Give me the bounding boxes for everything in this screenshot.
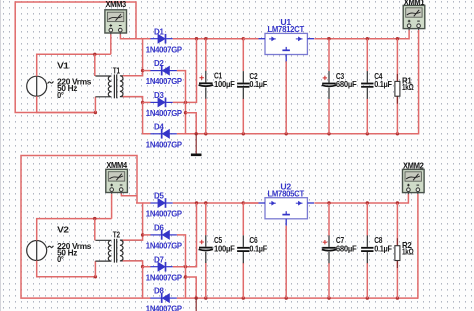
wire to primary top [94,219,96,241]
node on output rail [396,37,399,40]
wire to primary bottom [94,261,96,277]
node on ground rail [242,132,245,135]
wire [205,203,207,235]
wire [366,39,368,71]
node on + rail [242,37,245,40]
wire V2- bottom [37,261,96,277]
node AC2 [141,265,144,268]
AC voltage source V1 220 Vrms 50 Hz [27,61,92,100]
diode D5 1N4007GP [146,191,183,219]
svg-text:680µF: 680µF [336,245,357,254]
node on ground rail [366,132,369,135]
wire to regulator input [243,38,258,40]
node DC- [184,111,187,114]
node on output rail [366,201,369,204]
diode D8 1N4007GP [146,286,183,311]
svg-text:0°: 0° [57,255,64,264]
node on ground rail [366,296,369,299]
wire regulator output rail [314,194,408,203]
wire AC1 rail [136,39,143,71]
node on + rail [242,201,245,204]
wire V1- bottom [37,96,96,112]
wire [366,99,368,134]
svg-text:D7: D7 [154,254,164,264]
multimeter XMM4 [106,161,128,194]
wire [242,99,244,134]
svg-text:1N4007GP: 1N4007GP [146,139,183,149]
AC voltage source V2 220 Vrms 50 Hz [27,226,92,265]
capacitor C5 100uF [196,161,424,311]
capacitor C6 0.1uF [196,161,424,311]
svg-text:T1: T1 [113,66,121,75]
wire [328,203,330,236]
wire DC+ rail [173,202,259,204]
wire [143,70,151,72]
wire to primary bottom [94,97,96,113]
node DC+ [195,201,198,204]
diode D2 1N4007GP [146,58,183,86]
wire DC- to ground rail [186,113,197,134]
capacitor C8 0.1uF [196,161,424,311]
wire AC2 rail [143,102,151,133]
wire V1+ to XMM3+ [37,54,111,76]
multimeter XMM2 [403,161,425,194]
wire ground rail [177,297,419,299]
wire [396,39,398,82]
svg-text:LM7805CT: LM7805CT [267,188,304,198]
wire [366,263,368,298]
node DC- [184,275,187,278]
node on output rail [327,37,330,40]
wire secondary bottom [123,261,143,267]
wire to primary top [94,54,96,76]
wire secondary bottom [123,97,143,103]
wire XMM3- lead [120,34,142,38]
wire AC2 rail [143,267,151,298]
svg-text:1N4007GP: 1N4007GP [146,304,183,311]
diode D4 1N4007GP [146,121,183,149]
node V1- / primary bottom [94,111,97,114]
diode D1 1N4007GP [146,26,183,54]
node on ground rail [396,132,399,135]
svg-text:D4: D4 [154,121,164,131]
node on ground rail [204,132,207,135]
wire [328,39,330,71]
svg-text:D2: D2 [154,58,164,68]
wire [242,203,244,235]
node on ground rail [285,132,288,135]
svg-text:XMM1: XMM1 [404,0,425,7]
svg-text:1N4007GP: 1N4007GP [146,76,183,86]
ground [191,134,202,155]
node DC+ [195,37,198,40]
wire secondary top [123,235,143,240]
wire XMM2- to ground rail [417,194,420,298]
node on output rail [327,201,330,204]
node on output rail [366,37,369,40]
svg-text:0°: 0° [57,91,64,100]
wire [143,234,151,236]
wire D3 cathode to DC+ [173,39,197,103]
node on ground rail [204,296,207,299]
wire [143,202,151,204]
wire [242,263,244,298]
wire [242,39,244,71]
multimeter XMM1 [403,0,425,30]
wire crossing [184,265,187,268]
transformer T1 [95,66,142,98]
wire regulator ground pin [285,226,287,298]
wire XMM3+ lead [110,34,112,54]
svg-text:680µF: 680µF [336,80,357,89]
wire DC+ rail [173,38,259,40]
svg-text:T2: T2 [113,231,121,240]
resistor R2 1kΩ [395,238,414,268]
svg-text:1N4007GP: 1N4007GP [146,44,183,54]
wire DC- to ground rail [186,277,197,298]
svg-text:0.1µF: 0.1µF [249,245,267,254]
node on ground rail [285,296,288,299]
wire [366,203,368,236]
diode D3 1N4007GP [146,90,183,118]
wire [143,266,151,268]
node on output rail [396,201,399,204]
svg-text:D6: D6 [154,223,164,233]
wire XMM4- lead [121,194,137,196]
wire D6 anode rail [177,235,186,298]
voltage regulator U2 LM7805CT [258,182,314,226]
node on ground rail [327,296,330,299]
svg-text:D8: D8 [154,286,164,296]
node AC2 [141,101,144,104]
svg-text:1kΩ: 1kΩ [402,246,414,256]
wire to regulator input [243,202,258,204]
svg-text:V2: V2 [57,226,69,235]
node on ground rail [195,296,198,299]
svg-text:D5: D5 [154,191,164,201]
wire regulator ground pin [285,61,287,133]
node on + rail [204,201,207,204]
wire [328,99,330,134]
node V2+ / T2 primary top [93,217,96,220]
wire [328,263,330,298]
wire ground rail [177,133,419,135]
wire [143,101,151,103]
wire D2 anode rail [177,71,186,134]
svg-text:XMM4: XMM4 [106,161,127,170]
wire D7 cathode to DC+ [173,203,197,267]
node V2- / primary bottom [94,275,97,278]
wire XMM4+ lead [111,194,113,219]
wire [205,263,207,298]
node on ground rail [195,132,198,135]
wire crossing [184,101,187,104]
diode D7 1N4007GP [146,254,183,282]
svg-text:0.1µF: 0.1µF [249,80,267,89]
voltage regulator U1 LM7812CT [258,17,314,61]
svg-text:D1: D1 [154,26,164,36]
svg-text:1N4007GP: 1N4007GP [146,272,183,282]
svg-text:1N4007GP: 1N4007GP [146,209,183,219]
wire regulator output rail [314,30,409,39]
wire [143,38,151,40]
svg-text:0.1µF: 0.1µF [374,245,392,254]
wire XMM1- to ground rail [418,30,420,134]
svg-text:1kΩ: 1kΩ [402,82,414,92]
wire AC1 rail [136,203,143,235]
resistor R1 1kΩ [395,74,414,104]
wire (outer loop) [21,156,143,299]
svg-text:V1: V1 [57,61,69,70]
svg-text:100µF: 100µF [214,80,235,89]
wire (outer loop) [15,2,136,113]
node on ground rail [242,296,245,299]
node on ground rail [396,296,399,299]
svg-text:XMM3: XMM3 [105,0,126,9]
capacitor C7 680uF [196,161,424,311]
svg-text:100µF: 100µF [214,244,235,253]
diode D6 1N4007GP [146,223,183,251]
node V1+ / T1 primary top [93,53,96,56]
svg-text:D3: D3 [154,90,164,100]
wire [205,99,207,134]
svg-text:LM7812CT: LM7812CT [267,24,304,34]
ground [195,298,197,311]
wire [205,39,207,71]
wire [396,203,398,246]
multimeter XMM3 [105,0,127,35]
wire secondary top [123,71,143,76]
wire [396,261,398,299]
wire V2+ to XMM4+ [37,219,112,241]
svg-text:XMM2: XMM2 [403,161,424,170]
svg-text:0.1µF: 0.1µF [374,80,392,89]
wire [396,96,398,134]
svg-text:1N4007GP: 1N4007GP [146,108,183,118]
transformer T2 [95,231,142,263]
node on + rail [204,37,207,40]
node AC1 [141,69,144,72]
node on ground rail [327,132,330,135]
svg-text:1N4007GP: 1N4007GP [146,241,183,251]
node AC1 [141,233,144,236]
